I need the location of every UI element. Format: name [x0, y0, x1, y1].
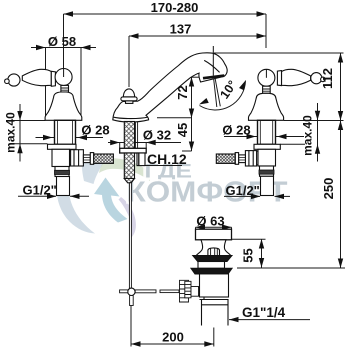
dim 170-280 right extension	[265, 14, 267, 48]
left bell	[45, 92, 82, 120]
right bell	[249, 93, 284, 120]
center stud threaded	[124, 153, 134, 179]
mark blue-grey swoosh	[57, 182, 95, 234]
dim o58 left extension	[45, 48, 47, 120]
arrow 55 bottom	[259, 258, 264, 268]
left hose nut facet 2	[78, 150, 80, 166]
spout cap	[123, 89, 134, 97]
right handle neck	[263, 86, 271, 93]
dim 200 line	[131, 343, 214, 345]
arrow o63 right	[222, 225, 232, 230]
arrow 112 bottom	[338, 111, 343, 121]
arrow G12L tip	[47, 194, 57, 199]
dim o28 left line	[36, 137, 104, 139]
horizontal bar left	[120, 290, 128, 293]
arrow 45 bottom	[189, 142, 194, 152]
arrow G12R tip	[251, 194, 261, 199]
svg-text:CH.12: CH.12	[147, 151, 187, 167]
svg-text:G1/2": G1/2"	[23, 183, 57, 198]
left flange	[48, 144, 77, 149]
G12 left right tail	[70, 195, 89, 197]
drain neck bell	[196, 240, 230, 256]
svg-text:max.40: max.40	[301, 115, 315, 156]
angle wedge line 2	[215, 76, 221, 106]
left hose ferrule	[90, 153, 93, 165]
arrow 250 bottom	[338, 259, 343, 269]
left shank inner lines	[58, 120, 73, 144]
right tailpiece	[261, 176, 274, 195]
horizontal bar right	[135, 290, 156, 293]
dim o63 right extension	[231, 227, 233, 230]
dim 55 shaft	[261, 239, 263, 268]
CH12 leader	[146, 165, 183, 167]
right valve body	[258, 149, 276, 166]
dim o32 left extension	[119, 143, 121, 149]
left hose nut	[71, 150, 84, 166]
G12 right leader	[224, 195, 260, 197]
G114 leader	[229, 319, 310, 321]
right flange	[254, 144, 280, 149]
drain body	[200, 274, 229, 297]
drain locknut	[191, 268, 232, 274]
drain gasket	[193, 256, 232, 262]
linkage turnbuckle	[180, 280, 189, 302]
dim o58 line	[31, 47, 96, 49]
right hose coupling	[239, 155, 246, 163]
drain mid cylinder	[198, 262, 225, 269]
svg-text:250: 250	[321, 178, 336, 200]
spout outlet rim	[203, 76, 224, 79]
deck line right	[284, 120, 344, 122]
dim o32 right extension	[145, 143, 147, 149]
left hose nut facet 1	[73, 150, 75, 166]
center shank threaded	[124, 122, 134, 149]
spout base rim	[114, 117, 148, 118]
dim 200 right extension	[213, 328, 215, 347]
arrow 200 right	[204, 341, 214, 346]
angle arc 10deg	[200, 81, 246, 110]
left valve body	[52, 149, 70, 166]
watermark text	[127, 161, 288, 209]
left hose coupling	[83, 155, 90, 163]
arrow o32 right	[146, 140, 156, 145]
dim 137 left extension	[128, 36, 130, 87]
drain clamp bracket	[191, 287, 199, 297]
left handle collar	[51, 71, 55, 86]
spout cap collar	[126, 101, 133, 104]
left hose braid	[94, 154, 114, 163]
left adapter	[55, 167, 69, 177]
left handle neck collar line	[61, 88, 69, 90]
right hose nut	[245, 151, 256, 166]
spout outlet extension line	[212, 46, 214, 76]
arrow 55 top	[259, 239, 264, 249]
arrow arc top	[239, 79, 248, 90]
svg-text:Ø 63: Ø 63	[196, 214, 224, 229]
svg-text:Ø 28: Ø 28	[222, 123, 250, 138]
right shank inner lines	[260, 120, 272, 144]
left shank	[55, 120, 76, 144]
right handle knob	[311, 73, 322, 84]
right handle collar	[277, 71, 281, 86]
arrow G12R tip2	[275, 194, 285, 199]
right hose nut facet 1	[248, 151, 250, 166]
ref line top y53	[214, 52, 344, 54]
flange level line left	[11, 143, 48, 145]
arrow G114 tip	[229, 317, 239, 322]
left handle ball	[55, 69, 72, 86]
horizontal bar far	[160, 290, 179, 293]
arrow o58 left	[36, 45, 46, 50]
svg-text:137: 137	[170, 22, 192, 37]
arrow 137 right	[257, 33, 267, 38]
center stud taper	[124, 179, 134, 183]
drain knurled cap	[208, 248, 220, 256]
tick y151	[182, 150, 192, 152]
svg-text:112: 112	[320, 68, 335, 89]
drain body bottom step	[200, 297, 205, 300]
svg-text:55: 55	[241, 248, 256, 262]
left handle neck	[61, 85, 69, 92]
left body ball joint	[63, 151, 77, 165]
arrow o28R right	[277, 134, 287, 139]
dim 72-45 shaft	[191, 77, 193, 151]
mark green swoosh	[99, 158, 150, 181]
arrow o28R left	[247, 134, 257, 139]
mark lavender band	[119, 197, 136, 238]
tick y117.7	[157, 117, 192, 119]
G12 right right tail	[275, 195, 291, 197]
left handle lever	[22, 69, 51, 85]
right hose ferrule	[235, 153, 238, 165]
dim o63 line	[196, 226, 232, 228]
drain clamp knurl	[185, 281, 191, 298]
arrow 72 top	[189, 77, 194, 87]
ref line y268	[237, 267, 345, 269]
svg-text:45: 45	[175, 123, 190, 137]
mark pale blue sail	[82, 158, 107, 184]
svg-text:170-280: 170-280	[151, 0, 199, 15]
right handle ball	[258, 69, 275, 86]
angle wedge line 1	[213, 77, 216, 108]
arrow 137 left	[129, 33, 139, 38]
dim o32 line	[108, 142, 181, 144]
watermark logo mark	[57, 158, 150, 238]
dim o58 right extension	[80, 48, 82, 120]
right hose braid	[216, 154, 235, 163]
right shank	[258, 120, 276, 144]
arrow max40R top	[315, 111, 320, 121]
arrow o32 left	[110, 140, 120, 145]
drain pivot ball	[197, 286, 208, 297]
right adapter	[260, 166, 274, 176]
left tailpiece	[57, 177, 70, 196]
dim o63 left extension	[195, 227, 197, 230]
spout head crease	[204, 60, 219, 72]
flange level tick right	[280, 143, 305, 145]
arrow arc bottom	[198, 98, 209, 107]
lift rod upper pair	[135, 122, 137, 149]
right hose coupling lines	[239, 158, 246, 161]
rod pivot ball	[128, 288, 135, 295]
dim 170-280 line	[64, 13, 267, 15]
max40 left shaft	[19, 104, 21, 162]
arrow o28L right	[78, 135, 88, 140]
right handle neck collar line	[263, 89, 271, 91]
svg-text:Ø 32: Ø 32	[143, 128, 171, 143]
left adapter band	[55, 170, 70, 174]
outlet tick	[186, 76, 200, 78]
arrow max40R bottom	[315, 144, 320, 154]
right adapter band	[259, 170, 274, 174]
arrow G12L tip2	[70, 194, 80, 199]
dim 170-280 left extension	[63, 14, 65, 75]
arrow 170-280 right	[257, 11, 267, 16]
right handle lever	[282, 69, 311, 85]
arrow o58 right	[81, 45, 91, 50]
drain tailpiece	[202, 300, 229, 326]
arrow o28L left	[43, 135, 53, 140]
dim o28 right line	[224, 136, 304, 138]
left handle knob tip	[5, 79, 10, 84]
right handle ball centerline	[265, 69, 267, 78]
drain top slab	[196, 229, 232, 240]
dim 55 top extension	[232, 238, 266, 240]
max40 right shaft	[317, 103, 319, 162]
drain cap knurl lines	[211, 248, 218, 256]
arrow 72 bottom	[189, 109, 194, 119]
svg-text:Ø 58: Ø 58	[48, 34, 76, 49]
spout body	[113, 53, 227, 122]
right hose nut facet 2	[252, 151, 254, 166]
left handle knob	[8, 74, 20, 86]
dim 200 left extension	[130, 306, 132, 347]
spout cap rim	[121, 97, 137, 101]
drain tailpiece shoulder	[202, 304, 229, 306]
svg-text:72: 72	[175, 85, 190, 99]
deck line left	[12, 120, 45, 122]
right handle knob tip	[321, 77, 326, 82]
svg-text:G1/2": G1/2"	[226, 183, 260, 198]
left handle ball centerline	[63, 69, 65, 78]
arrow 250 top	[338, 121, 343, 131]
G12 left leader	[18, 195, 56, 197]
arrow 200 left	[131, 341, 141, 346]
mounting nut shadow	[138, 153, 140, 166]
mark teal arrow	[94, 178, 128, 223]
arrow max40L top	[17, 111, 22, 121]
dim 112-250 shaft	[340, 53, 342, 268]
dim 137 line	[129, 35, 266, 37]
rod below ball	[130, 296, 134, 306]
svg-text:200: 200	[162, 330, 184, 345]
arrow max40L bottom	[17, 144, 22, 154]
left hose coupling lines	[83, 158, 90, 161]
arrow 170-280 left	[64, 11, 74, 16]
svg-text:Ø 28: Ø 28	[81, 123, 109, 138]
arrow 112 top	[338, 53, 343, 63]
right body ball joint	[251, 151, 265, 165]
lift rod lower	[129, 183, 131, 288]
arrow o63 left	[196, 225, 206, 230]
mounting nut CH12	[137, 153, 145, 166]
svg-text:max.40: max.40	[4, 112, 18, 153]
center flange	[120, 148, 147, 153]
svg-text:G1"1/4: G1"1/4	[242, 305, 286, 320]
